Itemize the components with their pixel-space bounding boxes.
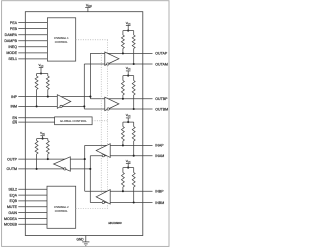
svg-text:OUTBM: OUTBM (155, 107, 168, 111)
wire rail ch1 input (37, 73, 48, 75)
junction R1-INM (36, 105, 38, 107)
border frame (2, 1, 169, 247)
svg-text:INP: INP (11, 95, 18, 99)
wire OUTBM row (84, 108, 152, 110)
resistor INBM pullup (133, 168, 135, 173)
op-amp A6 (OUT driver) (54, 157, 71, 171)
control bus vertical 2 (dotted) (100, 53, 102, 201)
resistor R3 (OUTM pullup) (36, 139, 38, 141)
svg-text:DAMPA: DAMPA (5, 33, 18, 37)
wire vertical P ch1 (89, 53, 91, 98)
junction INBP (122, 190, 124, 192)
pin DAMPA (5, 33, 48, 37)
junction node M ch1 (83, 105, 85, 107)
junction R4-OUTP (47, 158, 49, 160)
VCC node ch1 input (39, 63, 44, 74)
svg-text:PEA: PEA (10, 21, 18, 25)
resistor R4 (OUTP pullup) (47, 139, 49, 141)
junction VCC INB (127, 167, 129, 169)
VCC node ch2 output (40, 131, 45, 138)
svg-text:SEL2: SEL2 (8, 188, 17, 192)
pin MODEA (4, 217, 47, 221)
op-amp A4 (INA receiver) (96, 144, 110, 158)
svg-text:VCC: VCC (126, 159, 131, 163)
svg-text:VCC: VCC (126, 21, 131, 25)
resistor INAM pullup (133, 122, 135, 126)
svg-text:GAIN: GAIN (8, 211, 17, 215)
junction node P ch1 (89, 96, 91, 98)
wire OUTAP row (90, 52, 152, 54)
wire INAM row (90, 155, 152, 157)
svg-text:VCC: VCC (126, 113, 131, 117)
bubble A6 inverting (64, 168, 66, 170)
svg-text:VCC: VCC (40, 131, 45, 135)
IC outline box (25, 12, 143, 236)
svg-text:MUTE: MUTE (7, 205, 18, 209)
wire rail INB (123, 167, 134, 169)
junction INBM (133, 201, 135, 203)
svg-text:PEB: PEB (10, 27, 18, 31)
svg-text:CHANNEL 2: CHANNEL 2 (54, 205, 69, 209)
bubble A1 inverting (60, 105, 62, 107)
pin PEB (10, 27, 48, 31)
svg-text:MAX4990: MAX4990 (108, 221, 122, 225)
wire rail INA (123, 121, 134, 123)
resistor OUTAM pullup (133, 31, 135, 35)
junction VCC INA (127, 121, 129, 123)
junction VCC OUTB (127, 75, 129, 77)
resistor OUTAP pullup (122, 31, 124, 35)
VCC supply pin (85, 3, 92, 11)
pin PEA (10, 21, 48, 25)
svg-text:CONTROL: CONTROL (55, 40, 68, 44)
junction node M ch2 (89, 168, 91, 170)
svg-text:EN: EN (12, 121, 17, 125)
wire rail OUTB (123, 75, 134, 77)
wire vertical M ch1 (83, 64, 85, 109)
op-amp A1 (ch1 input buffer) (57, 95, 71, 109)
svg-text:EQA: EQA (10, 193, 18, 197)
svg-text:INBM: INBM (155, 201, 164, 205)
junction VCC ch1 input (40, 72, 42, 74)
svg-text:GND: GND (77, 237, 85, 241)
control line global (dotted) (92, 120, 108, 122)
wire INBM row (90, 202, 152, 204)
pin GAIN (8, 211, 47, 215)
pin SEL1 (8, 57, 47, 61)
resistor R2 (INP pullup) (47, 74, 49, 77)
resistor INAP pullup (122, 122, 124, 126)
svg-text:OUTAM: OUTAM (155, 62, 168, 66)
svg-text:GLOBAL CONTROL: GLOBAL CONTROL (60, 119, 87, 123)
wire rail OUTA (123, 30, 134, 32)
svg-text:VCC: VCC (39, 63, 44, 67)
svg-text:INEQ: INEQ (8, 45, 17, 49)
svg-text:OUTBP: OUTBP (155, 97, 168, 101)
svg-text:CONTROL: CONTROL (55, 209, 68, 213)
junction R3-OUTM (36, 168, 38, 170)
svg-text:MODE: MODE (6, 51, 17, 55)
svg-text:INM: INM (10, 105, 17, 109)
wire vertical P ch2 (84, 145, 86, 191)
pin MODEB (4, 223, 47, 227)
global control block (55, 117, 93, 125)
pin EQB (10, 199, 48, 203)
svg-text:INAP: INAP (155, 144, 164, 148)
channel 1 control block (47, 18, 75, 61)
wire INAP row (85, 144, 153, 146)
svg-text:EN: EN (12, 116, 17, 120)
bubble A2 inverting (107, 63, 109, 65)
pin INP (11, 95, 90, 99)
junction INAM (133, 155, 135, 157)
junction VCC ch2 output (42, 138, 44, 140)
junction node P ch2 (84, 158, 86, 160)
wire vertical M ch2 (89, 156, 91, 203)
svg-text:VCC: VCC (126, 66, 131, 70)
pin MUTE (7, 205, 47, 209)
svg-text:OUTP: OUTP (7, 157, 17, 161)
svg-text:INAM: INAM (155, 154, 164, 158)
resistor OUTBP pullup (122, 76, 124, 81)
svg-text:SEL1: SEL1 (8, 57, 17, 61)
control line ch2 (dotted) (76, 207, 108, 209)
svg-text:MODEA: MODEA (4, 217, 18, 221)
junction OUTAM (133, 63, 135, 65)
svg-text:OUTAP: OUTAP (155, 52, 168, 56)
junction VCC OUTA (127, 30, 129, 32)
control bus vertical 1 (dotted) (107, 40, 109, 209)
svg-text:DAMPB: DAMPB (4, 39, 17, 43)
wire OUTBP row (90, 98, 152, 100)
pin OUTP (7, 157, 85, 161)
ground GND pin (77, 236, 90, 246)
bubble A3 inverting (107, 108, 109, 110)
wire OUTAM row (84, 63, 152, 65)
wire INBP row (85, 190, 153, 192)
svg-text:OUTM: OUTM (7, 167, 17, 171)
wire rail ch2 output (37, 138, 48, 140)
svg-text:CHANNEL 1: CHANNEL 1 (54, 36, 69, 40)
junction R2-INP (47, 96, 49, 98)
svg-text:MODEB: MODEB (4, 223, 18, 227)
pin EN-bar (12, 121, 54, 125)
pin OUTM (7, 167, 91, 171)
svg-text:EQB: EQB (10, 199, 18, 203)
junction INAP (122, 144, 124, 146)
resistor OUTBM pullup (133, 76, 135, 81)
pin INEQ (8, 45, 47, 49)
bubble A5 inverting (102, 201, 104, 203)
junction OUTBM (133, 108, 135, 110)
op-amp A3 (OUTB driver) (105, 97, 119, 110)
pin DAMPB (4, 39, 47, 43)
svg-text:INBP: INBP (155, 190, 164, 194)
pin INM (10, 105, 84, 109)
junction OUTAP (122, 52, 124, 54)
resistor INBP pullup (122, 168, 124, 173)
op-amp A2 (OUTA driver) (105, 52, 119, 65)
control line ch1 (dotted) (76, 39, 108, 41)
pin EQA (10, 193, 48, 197)
op-amp A5 (INB receiver) (96, 190, 110, 204)
junction OUTBP (122, 98, 124, 100)
channel 2 control block (47, 186, 76, 228)
resistor R1 (INM pullup) (36, 74, 38, 77)
bubble A4 inverting (102, 155, 104, 157)
pin SEL2 (8, 188, 47, 192)
pin EN (12, 116, 54, 120)
pin MODE (6, 51, 47, 55)
